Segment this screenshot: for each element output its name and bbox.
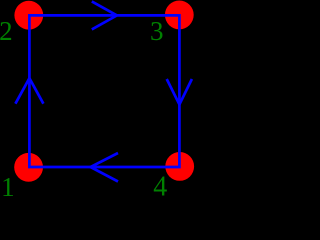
svg-text:2: 2 [0,16,13,46]
svg-text:4: 4 [153,171,167,196]
svg-text:1: 1 [1,172,15,196]
svg-text:3: 3 [150,16,164,46]
